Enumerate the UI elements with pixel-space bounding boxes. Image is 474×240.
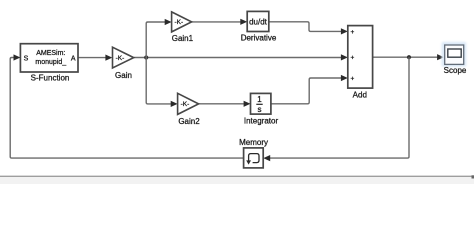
svg-text:du/dt: du/dt [249, 17, 268, 26]
svg-text:Gain2: Gain2 [178, 117, 200, 126]
wire W10 junction down and left to Memory [270, 57, 409, 158]
wire W2 Gain output to Add input 2 [134, 57, 341, 59]
S-Function block U1 (AMESim: monupid_) [20, 44, 78, 72]
junction node on Scope wire [407, 55, 411, 59]
svg-text:Memory: Memory [239, 138, 268, 147]
wire W8 Integrator to Add input 3 [271, 78, 341, 104]
derivative block (du/dt) [247, 11, 269, 31]
svg-text:+: + [351, 29, 355, 36]
svg-text:-K-: -K- [174, 19, 183, 26]
status bar fill [0, 177, 474, 184]
gain block Gain [113, 47, 134, 68]
status bar right end cap [472, 175, 474, 178]
wire W3 branch up to Gain1 [146, 22, 165, 58]
memory block Memory [244, 148, 264, 168]
scope block Scope [442, 42, 467, 67]
svg-text:Integrator: Integrator [244, 116, 279, 125]
svg-text:S-Function: S-Function [31, 73, 70, 82]
integrator block (1/s) [251, 93, 271, 114]
wire W6 branch down to Gain2 [146, 58, 171, 104]
junction node after Gain [144, 55, 148, 59]
svg-text:Gain: Gain [115, 71, 132, 80]
status bar separator line [0, 175, 474, 177]
wire W11 Memory output feedback to S-Function input [10, 58, 243, 159]
svg-text:Add: Add [353, 90, 367, 99]
wire W9 Add output to Scope [373, 56, 438, 58]
wire W1 S-Function output A to Gain input [78, 57, 105, 59]
svg-text:Derivative: Derivative [241, 33, 277, 42]
gain block Gain1 [172, 12, 192, 32]
svg-text:Gain1: Gain1 [172, 34, 194, 43]
wire W7 Gain2 to Integrator [199, 103, 244, 105]
svg-text:monupid_: monupid_ [35, 59, 66, 66]
svg-text:-K-: -K- [116, 55, 125, 62]
svg-text:1: 1 [257, 95, 262, 104]
svg-text:AMESim:: AMESim: [36, 50, 65, 57]
svg-text:A: A [71, 55, 76, 62]
svg-text:s: s [258, 105, 262, 114]
wire W4 Gain1 to Derivative [192, 21, 241, 23]
gain block Gain2 [178, 93, 199, 114]
svg-text:+: + [351, 55, 355, 62]
svg-text:-K-: -K- [181, 101, 190, 108]
svg-text:+: + [351, 75, 355, 82]
svg-text:Scope: Scope [444, 66, 467, 75]
svg-text:S: S [24, 55, 29, 62]
sum block Add [348, 26, 373, 89]
wire W5 Derivative to Add input 1 [269, 22, 341, 32]
